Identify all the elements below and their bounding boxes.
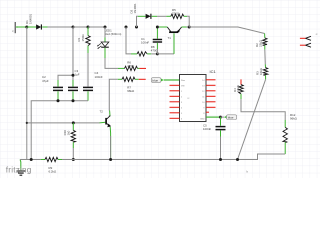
- wire IC1 pin GND to node J: [206, 116, 221, 118]
- node M junction C5: [219, 158, 222, 161]
- wire T2 base from left rail: [27, 122, 100, 124]
- resistor R4 red stub: [240, 79, 242, 84]
- capacitor C2: [53, 80, 63, 101]
- node A junction: [25, 26, 28, 29]
- resistor R7 wire from T2 collector: [109, 79, 118, 110]
- capacitor C2 label: [42, 75, 49, 83]
- node H junction: [188, 26, 191, 29]
- resistor R10: [71, 123, 75, 148]
- wire R6 red stub: [140, 67, 147, 69]
- svg-text:100nF: 100nF: [95, 75, 103, 79]
- svg-text:VIN: VIN: [181, 86, 185, 88]
- LED1 label: [105, 29, 122, 37]
- wire R4 to R12 top: [241, 99, 285, 120]
- svg-text:GND: GND: [200, 119, 205, 121]
- transistor T2: [106, 116, 111, 128]
- wire T2 emitter to ground rail: [109, 127, 111, 160]
- resistor R6 label: [127, 60, 134, 68]
- diode D2 label: [130, 3, 137, 14]
- svg-text:47µF: 47µF: [42, 79, 49, 83]
- svg-text:150Ω: 150Ω: [81, 34, 85, 42]
- capacitor C4: [83, 87, 93, 101]
- wire C5 to ground rail: [220, 137, 222, 160]
- wire R1 to C4: [87, 53, 89, 87]
- ground symbol: [17, 160, 26, 176]
- svg-text:1k0: 1k0: [66, 130, 70, 135]
- resistor R9: [41, 157, 62, 161]
- capacitor C4 label: [95, 71, 103, 79]
- resistor R8 label: [151, 45, 158, 52]
- node C junction: [87, 26, 90, 29]
- resistor R9 label: [49, 166, 57, 174]
- wire node G to T1 emitter: [159, 26, 167, 28]
- capacitor C1 label: [141, 37, 149, 45]
- resistor R2: [263, 34, 267, 50]
- connector J1 input pin: [12, 22, 18, 33]
- svg-text:96kΩ: 96kΩ: [290, 117, 298, 121]
- wire node B down to C3: [72, 27, 74, 80]
- svg-text:6.2kΩ: 6.2kΩ: [49, 169, 57, 173]
- wire node E down to R8 row: [126, 27, 131, 54]
- resistor R3: [263, 64, 267, 79]
- wire ground rail main: [62, 159, 258, 161]
- wire left rail vertical: [26, 27, 28, 160]
- wire R5 right riser to node H: [187, 16, 189, 27]
- wire C2 top link: [58, 75, 73, 80]
- resistor R1: [86, 27, 90, 53]
- node D junction: [104, 26, 107, 29]
- resistor R1 label: [77, 34, 85, 42]
- resistor R4 label: [233, 84, 240, 92]
- svg-text:4700: 4700: [151, 48, 158, 52]
- wire R10 to ground rail: [72, 148, 74, 160]
- resistor R7: [118, 77, 139, 81]
- capacitor C1: [153, 27, 162, 49]
- IC1 right pin labels: [200, 80, 205, 121]
- svg-text:1N4001: 1N4001: [133, 3, 137, 14]
- svg-text:Raw: Raw: [181, 80, 186, 82]
- node N junction diagonal: [236, 158, 239, 161]
- wire node F to T1 base: [157, 53, 174, 55]
- svg-text:100nF: 100nF: [141, 40, 149, 44]
- resistor R2 label: [255, 39, 262, 47]
- resistor R7 label: [127, 86, 135, 94]
- wire J1 to node A: [18, 26, 27, 28]
- node C3top junction: [72, 74, 75, 77]
- svg-text:blue: blue: [228, 116, 234, 120]
- resistor R8: [131, 52, 151, 56]
- wire R8 to node F: [151, 53, 157, 55]
- wire D2 branch left riser: [137, 16, 139, 27]
- diode D1 label: [25, 13, 32, 24]
- IC1 right red pins: [206, 80, 216, 112]
- node B junction: [72, 26, 75, 29]
- resistor R10 label: [63, 130, 70, 136]
- wire D2 to R5: [157, 15, 166, 17]
- wire C1 to node F: [156, 49, 158, 54]
- op-amp IC1 body: [180, 75, 207, 122]
- svg-text:T1: T1: [168, 36, 172, 40]
- wire node J to net blue 2: [221, 116, 225, 118]
- svg-text:10kΩ: 10kΩ: [236, 84, 240, 92]
- wire node B to node C: [73, 26, 88, 28]
- wire net blue to IC pin 1: [164, 79, 180, 81]
- wire LED1 cathode down and right to R6: [105, 58, 118, 68]
- capacitor C3 label: [75, 69, 80, 77]
- svg-text:T2: T2: [100, 110, 104, 114]
- svg-text:IC1: IC1: [210, 69, 217, 74]
- resistor R12: [283, 120, 287, 154]
- node F junction: [156, 52, 159, 55]
- node E junction: [125, 26, 128, 29]
- capacitor C3: [68, 80, 78, 101]
- net label blue 1: [151, 78, 164, 83]
- capacitor C5 label: [203, 123, 211, 131]
- net label blue 2: [224, 115, 237, 120]
- svg-text:Red (633nm): Red (633nm): [105, 32, 122, 36]
- wire ground rail left segment: [20, 159, 41, 161]
- wire R12 bottom return to ground rail: [238, 154, 286, 160]
- LED LED1: [97, 27, 109, 58]
- svg-text:100nF: 100nF: [203, 127, 211, 131]
- node R10 bottom junction: [72, 158, 75, 161]
- resistor R12 label: [290, 113, 298, 121]
- wire R3 diagonal to ground rail: [238, 79, 266, 159]
- resistor R4: [239, 85, 243, 100]
- svg-text:fritzing: fritzing: [6, 165, 32, 174]
- svg-text:blue: blue: [152, 79, 158, 83]
- connector J2 pin 2: [300, 43, 311, 47]
- connector J2 pin 1: [300, 36, 311, 40]
- wire capacitor ground rail: [31, 101, 88, 160]
- wire R2 to R3: [264, 50, 267, 65]
- resistor R6: [122, 66, 140, 70]
- wire node C to node D: [88, 26, 105, 28]
- resistor R5: [166, 14, 187, 18]
- node R10top junction: [72, 121, 75, 124]
- diode D2: [138, 14, 157, 19]
- svg-text:10kΩ: 10kΩ: [259, 67, 263, 75]
- node I junction for D2 branch: [135, 26, 138, 29]
- node L junction T2 emitter: [109, 158, 112, 161]
- svg-text:96kΩ: 96kΩ: [127, 89, 135, 93]
- svg-text:1N4001: 1N4001: [29, 13, 33, 24]
- capacitor C5: [216, 117, 226, 136]
- node base junction on left rail: [26, 122, 28, 124]
- wire T1 collector to node H: [182, 26, 187, 28]
- resistor R5 label: [172, 8, 180, 15]
- node C3gnd junction: [72, 99, 75, 102]
- transistor T1: [167, 27, 181, 40]
- wire D1 to node B: [48, 26, 74, 28]
- IC1 left red pins: [170, 85, 180, 118]
- node C2gnd junction: [57, 99, 60, 102]
- node G junction on rail at C1: [156, 26, 159, 29]
- wire R7 red stub: [139, 78, 146, 80]
- node J junction: [219, 116, 222, 119]
- wire node H to R2 (top right rail with diagonal): [189, 27, 264, 34]
- diode D1: [27, 24, 48, 29]
- resistor R3 label: [255, 67, 262, 75]
- IC1 left pin labels: [181, 80, 186, 121]
- node K junction: [30, 158, 33, 161]
- svg-text:1µF: 1µF: [75, 72, 80, 76]
